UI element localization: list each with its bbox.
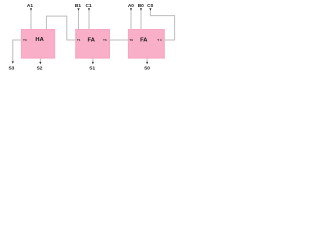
svg-text:T6: T6 bbox=[103, 38, 107, 42]
wire: carry from FA U2 over the top into HA U1 top input bbox=[46, 16, 75, 40]
svg-text:S0: S0 bbox=[144, 66, 150, 72]
wire: C0 input routed around right side into FA U3 bbox=[150, 10, 174, 40]
wire: S2 output stem bbox=[39, 59, 41, 63]
wire: HA U1 carry-out left pin to S3 arrow bbox=[13, 40, 21, 62]
full-adder U3 bbox=[128, 30, 164, 59]
arrowhead S3 output bbox=[12, 61, 14, 63]
arrowhead A0 bbox=[130, 8, 132, 10]
svg-text:FA: FA bbox=[87, 37, 95, 43]
wire: B1 input stem bbox=[78, 10, 80, 29]
arrowhead A1 bbox=[30, 8, 32, 10]
svg-text:S2: S2 bbox=[37, 66, 43, 72]
svg-text:S3: S3 bbox=[8, 66, 14, 72]
background bbox=[0, 0, 180, 85]
svg-text:B0: B0 bbox=[138, 3, 144, 9]
wire: C1 input stem bbox=[88, 10, 90, 29]
svg-text:B1: B1 bbox=[75, 3, 81, 9]
arrowhead C1 bbox=[88, 8, 90, 10]
svg-text:A1: A1 bbox=[27, 3, 33, 9]
wire: A1 input stem bbox=[30, 10, 32, 29]
arrowhead C0 bbox=[149, 8, 151, 10]
svg-text:FA: FA bbox=[140, 37, 148, 43]
arrowhead S2 output bbox=[39, 62, 41, 64]
svg-text:T4: T4 bbox=[157, 38, 162, 42]
arrowhead B0 bbox=[140, 8, 142, 10]
wire: B0 input stem bbox=[140, 10, 142, 29]
svg-text:S1: S1 bbox=[89, 66, 95, 72]
arrowhead S0 output bbox=[146, 62, 148, 64]
wire: S1 output stem bbox=[92, 59, 94, 63]
svg-text:A0: A0 bbox=[128, 3, 134, 9]
arrowhead B1 bbox=[77, 8, 79, 10]
wire: A0 input stem bbox=[130, 10, 132, 29]
wire: S0 output stem bbox=[146, 59, 148, 63]
svg-text:C0: C0 bbox=[147, 3, 153, 9]
svg-text:T3: T3 bbox=[23, 38, 27, 42]
wire: carry from FA U3 left pin to FA U2 right pin bbox=[110, 39, 128, 41]
arrowhead S1 output bbox=[92, 62, 94, 64]
svg-text:T1: T1 bbox=[77, 38, 81, 42]
svg-text:T9: T9 bbox=[129, 38, 133, 42]
svg-text:C1: C1 bbox=[86, 3, 92, 9]
half-adder U1 bbox=[21, 30, 54, 59]
full-adder U2 bbox=[76, 30, 110, 59]
svg-text:HA: HA bbox=[35, 37, 44, 43]
